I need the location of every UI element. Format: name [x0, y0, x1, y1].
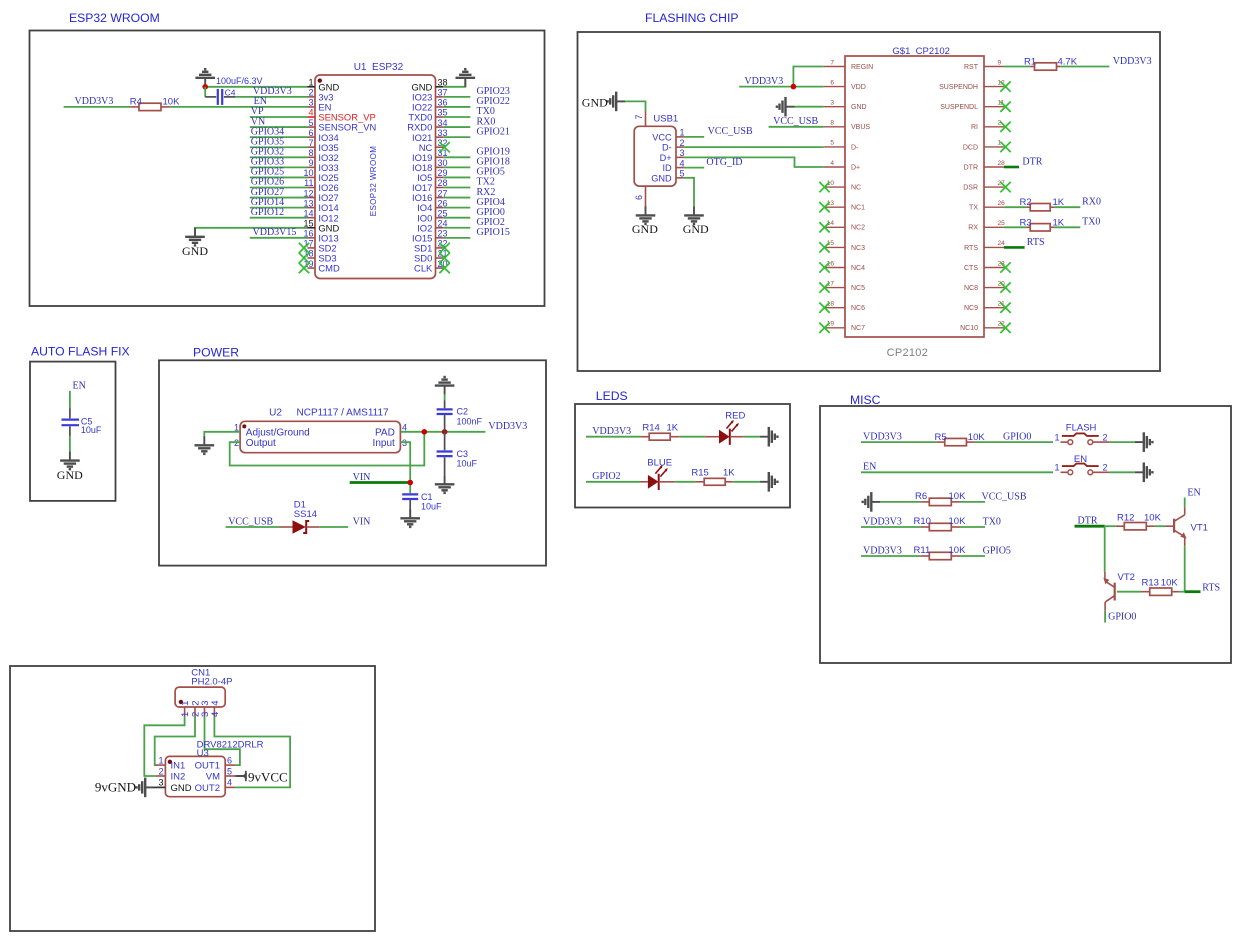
net label VIN at U2: [353, 472, 371, 483]
svg-text:R3: R3: [1020, 217, 1032, 228]
svg-text:VDD3V3: VDD3V3: [863, 545, 902, 556]
pin 21 NC9 of G$1: [964, 301, 1005, 313]
svg-text:1: 1: [180, 712, 191, 717]
svg-text:3: 3: [308, 98, 313, 108]
pin 4 SENSOR_VP of U1: [308, 108, 376, 123]
connector USB1 body: [634, 113, 678, 186]
pin 8 VBUS of G$1: [824, 120, 871, 132]
wire U2 pin 1 to GND: [204, 432, 240, 437]
svg-text:3: 3: [680, 148, 685, 158]
no-connect mark U1 pin 19: [299, 263, 309, 273]
wire RTS label segment: [1185, 590, 1201, 593]
pin 30 IO18 of U1: [412, 158, 448, 173]
svg-text:GPIO15: GPIO15: [477, 227, 510, 238]
svg-text:GPIO0: GPIO0: [1108, 611, 1136, 622]
svg-text:7: 7: [308, 138, 313, 148]
svg-text:R12: R12: [1117, 513, 1134, 524]
pin 4 PAD of U2: [375, 423, 407, 439]
wire VDD3V3 to R5: [861, 441, 936, 443]
pin 5 VM of U3: [206, 766, 236, 782]
svg-text:R6: R6: [915, 491, 927, 502]
wire GPIO26 to U1 pin 11: [250, 187, 308, 189]
wire DTR to R12: [1105, 525, 1116, 527]
ground symbol right of R15: [760, 472, 778, 492]
wire U2 pin 4 to VDD3V3: [400, 431, 485, 433]
pin 11 IO26 of U1: [304, 178, 339, 193]
svg-text:OUT2: OUT2: [195, 783, 220, 794]
ground symbol below C1: [400, 509, 420, 527]
svg-text:DCD: DCD: [963, 144, 978, 151]
frame AUTO FLASH FIX: [30, 362, 116, 501]
svg-text:2: 2: [158, 766, 163, 776]
net label VDD3V3 at R14: [592, 426, 631, 437]
wire 9vGND to U3 GND: [153, 786, 166, 788]
wire D- USB1 to G$1: [684, 146, 824, 148]
wire G$1 GND: [795, 106, 824, 108]
svg-text:U1 ESP32: U1 ESP32: [354, 62, 404, 73]
svg-text:VDD3V3: VDD3V3: [1113, 56, 1152, 67]
no-connect mark G$1 pin 18: [819, 303, 829, 313]
wire VDD3V3 to R14: [586, 436, 640, 438]
net label VDD3V3 at R11: [863, 545, 902, 556]
svg-text:SS14: SS14: [294, 509, 317, 520]
svg-text:SUSPENDL: SUSPENDL: [940, 104, 978, 111]
wire U1 pin 38 to GND: [443, 78, 465, 87]
net label GPIO4 at U1 pin 26: [477, 197, 505, 208]
svg-text:2: 2: [308, 88, 313, 98]
svg-text:VDD: VDD: [851, 84, 866, 91]
no-connect mark G$1 pin 15: [819, 242, 829, 252]
pin 2 IN2 of U3: [155, 766, 185, 782]
svg-text:GND: GND: [851, 104, 867, 111]
pin 16 NC4 of G$1: [824, 260, 865, 272]
pin 9 RST of G$1: [964, 59, 1004, 71]
svg-text:VCC: VCC: [652, 132, 672, 142]
svg-text:EN: EN: [863, 462, 876, 473]
svg-text:VT2: VT2: [1118, 572, 1135, 583]
capacitor C3 10uF: [437, 432, 478, 476]
no-connect mark G$1 pin 13: [819, 202, 829, 212]
svg-text:4: 4: [210, 712, 221, 717]
frame MISC: [820, 406, 1231, 663]
transistor VT1: [1166, 507, 1208, 546]
capacitor C5 10uF: [62, 408, 102, 436]
svg-text:GPIO21: GPIO21: [477, 126, 510, 137]
svg-text:REGIN: REGIN: [851, 64, 873, 71]
ground symbol in AUTO FLASH FIX: [57, 452, 83, 482]
net label GPIO26 at U1 pin 11: [251, 177, 284, 188]
svg-text:10K: 10K: [949, 516, 967, 527]
svg-text:ID: ID: [663, 163, 673, 173]
no-connect mark U1 pin 21: [439, 253, 449, 263]
pin 6 of USB1: [634, 186, 646, 210]
svg-text:EN: EN: [1074, 454, 1087, 465]
pin 36 IO22 of U1: [412, 98, 448, 113]
wire R11 to GPIO5: [960, 555, 985, 557]
pin 25 IO0 of U1: [417, 208, 447, 223]
resistor R14 1K: [640, 422, 679, 440]
net label VCC_USB at R6: [982, 491, 1027, 502]
net label VDD3V15 at U1 pin 16: [253, 227, 297, 238]
ground symbol right of switch EN: [1135, 463, 1153, 483]
wire LED RED to GND: [730, 436, 760, 438]
pin 24 IO2 of U1: [417, 218, 447, 233]
svg-text:10K: 10K: [1144, 513, 1162, 524]
wire R15 to GND: [734, 481, 760, 483]
resistor R6 10K: [915, 491, 966, 506]
pin 18 NC6 of G$1: [824, 301, 865, 313]
net label VDD3V3 at U2: [488, 421, 527, 432]
wire VP to U1 pin 4: [250, 116, 308, 118]
resistor R5 10K: [935, 432, 986, 446]
wire VCC_USB to D1: [226, 526, 280, 528]
svg-text:AUTO FLASH FIX: AUTO FLASH FIX: [31, 345, 130, 359]
svg-text:RST: RST: [964, 64, 979, 71]
net label GPIO12 at U1 pin 14: [251, 207, 284, 218]
pin 4 D+ of G$1: [824, 160, 860, 172]
svg-text:NC4: NC4: [851, 265, 865, 272]
wire VCC_USB to G$1 VBUS: [769, 126, 824, 128]
svg-text:ESP32 WROOM: ESP32 WROOM: [69, 11, 160, 25]
wire GPIO32 to U1 pin 8: [250, 156, 308, 158]
svg-text:2: 2: [1103, 432, 1108, 442]
pin 25 RX of G$1: [968, 220, 1005, 232]
net label GPIO14 at U1 pin 13: [251, 197, 284, 208]
svg-text:10K: 10K: [1161, 577, 1179, 588]
frame motor driver block: [10, 666, 375, 931]
svg-text:EN: EN: [1187, 488, 1200, 499]
svg-text:NC3: NC3: [851, 245, 865, 252]
svg-text:VIN: VIN: [353, 517, 371, 528]
pin 1 VCC of USB1: [652, 128, 684, 143]
pin 27 DSR of G$1: [963, 180, 1005, 192]
pin 34 RXD0 of U1: [407, 118, 447, 133]
pin 22 SD1 of U1: [414, 239, 447, 254]
wire GPIO15 from U1 pin 23: [443, 237, 470, 239]
net label GPIO0 at switch FLASH: [1003, 432, 1031, 443]
svg-text:10uF: 10uF: [81, 425, 102, 435]
frame FLASHING CHIP: [578, 32, 1161, 371]
svg-text:8: 8: [308, 148, 313, 158]
pin 19 NC7 of G$1: [824, 321, 865, 333]
pin 17 NC5 of G$1: [824, 280, 865, 292]
section title MISC: [850, 393, 881, 407]
pin 22 NC10 of G$1: [960, 321, 1005, 333]
svg-text:GND: GND: [683, 222, 709, 236]
svg-text:4: 4: [680, 158, 685, 168]
svg-text:VDD3V3: VDD3V3: [75, 96, 114, 107]
pin 7 REGIN of G$1: [824, 59, 873, 71]
svg-text:G$1 CP2102: G$1 CP2102: [892, 46, 950, 57]
svg-text:1K: 1K: [723, 468, 735, 479]
pin 23 IO15 of U1: [412, 229, 448, 244]
svg-text:2: 2: [1103, 463, 1108, 473]
net label GPIO2 at U1 pin 24: [477, 217, 505, 228]
svg-text:IN1: IN1: [171, 761, 186, 772]
pin 7 IO35 of U1: [308, 138, 339, 153]
svg-text:GND: GND: [182, 244, 208, 258]
wire RX2 from U1 pin 27: [443, 197, 470, 199]
net label VP at U1 pin 4: [251, 106, 264, 117]
resistor R12 10K: [1116, 513, 1162, 530]
net label RX0: [1082, 197, 1101, 208]
svg-text:VDD3V15: VDD3V15: [253, 227, 297, 238]
wire DTR from G$1: [1004, 166, 1019, 169]
svg-text:10uF: 10uF: [421, 502, 442, 512]
wire VT1 emitter to RTS: [1184, 546, 1186, 592]
frame LEDS: [575, 404, 790, 508]
wire GPIO22 from U1 pin 36: [443, 106, 470, 108]
pin 5 D- of G$1: [824, 140, 859, 152]
svg-text:9vGND: 9vGND: [95, 780, 136, 795]
pin 23 CTS of G$1: [964, 260, 1005, 272]
svg-text:D-: D-: [851, 144, 859, 151]
wire RX to R3: [1004, 226, 1026, 228]
svg-text:NC10: NC10: [960, 325, 978, 332]
svg-text:R13: R13: [1142, 577, 1159, 588]
wire VT2 base to R13: [1117, 591, 1141, 593]
wire VCC_USB from USB1 pin 1: [684, 136, 704, 138]
svg-text:VDD3V3: VDD3V3: [488, 421, 527, 432]
net label TX0 at U1 pin 35: [477, 106, 495, 117]
svg-text:NCP1117 / AMS1117: NCP1117 / AMS1117: [297, 407, 390, 418]
wire GPIO34 to U1 pin 6: [250, 136, 308, 138]
ground symbol right of LED RED: [760, 427, 778, 447]
no-connect mark G$1 pin 14: [819, 222, 829, 232]
wire GND to USB1 pin 7: [625, 101, 645, 111]
wire GPIO18 from U1 pin 30: [443, 166, 470, 168]
svg-text:1: 1: [1055, 432, 1060, 442]
svg-text:MISC: MISC: [850, 393, 881, 407]
net label VDD3V3 at U1 pin 2: [253, 86, 292, 97]
svg-text:NC6: NC6: [851, 305, 865, 312]
pin 18 SD3 of U1: [303, 249, 336, 264]
section title LEDS: [596, 389, 628, 403]
no-connect mark G$1 pin 17: [819, 282, 829, 292]
wire VIN label segment: [350, 481, 411, 484]
wire GPIO2 to LED BLUE: [586, 481, 640, 483]
no-connect mark G$1 pin 1: [1000, 142, 1010, 152]
pin 26 TX of G$1: [969, 200, 1005, 212]
pin 3 EN of U1: [308, 98, 332, 113]
net label VDD3V3 at R5: [863, 432, 902, 443]
pin 2 D- of USB1: [662, 138, 685, 153]
pin 35 TXD0 of U1: [408, 108, 447, 123]
net label GPIO27 at U1 pin 12: [251, 187, 284, 198]
svg-text:LEDS: LEDS: [596, 389, 628, 403]
ground symbol at U1 pin 15: [182, 228, 208, 258]
wire GPIO14 to U1 pin 13: [250, 207, 308, 209]
wire GPIO2 from U1 pin 24: [443, 227, 470, 229]
net label GPIO15 at U1 pin 23: [477, 227, 510, 238]
wire D+ USB1 to G$1: [684, 157, 824, 167]
resistor R15 1K: [691, 468, 735, 486]
svg-text:C1: C1: [421, 492, 433, 502]
resistor R13 10K: [1141, 577, 1180, 595]
pin 16 IO13 of U1: [303, 229, 338, 244]
svg-text:OUT1: OUT1: [195, 761, 220, 772]
pin 3 GND of G$1: [824, 100, 867, 112]
capacitor C1 10uF: [402, 492, 442, 519]
svg-text:VBUS: VBUS: [851, 124, 870, 131]
section title ESP32 WROOM: [69, 11, 160, 25]
section title AUTO FLASH FIX: [31, 345, 130, 359]
svg-text:C4: C4: [225, 87, 236, 97]
svg-text:CMD: CMD: [318, 263, 340, 274]
svg-text:IN2: IN2: [171, 772, 186, 783]
no-connect mark G$1 pin 12: [1000, 81, 1010, 91]
junction node PAD/Output: [422, 429, 428, 435]
pin 19 CMD of U1: [303, 259, 339, 274]
net label GPIO21 at U1 pin 33: [477, 126, 510, 137]
connector CN1 PH2.0-4P body: [175, 667, 232, 707]
net label GPIO5 at R11: [983, 545, 1011, 556]
wire REGIN to VDD net: [793, 67, 823, 87]
svg-text:10K: 10K: [949, 545, 967, 556]
svg-text:RTS: RTS: [1202, 582, 1220, 593]
net label GPIO5 at U1 pin 29: [477, 167, 505, 178]
net label VCC_USB at G$1 VBUS: [773, 116, 818, 127]
wire R13 to RTS junction: [1180, 591, 1185, 593]
wire GND to R6: [880, 501, 920, 503]
svg-text:GPIO0: GPIO0: [1003, 432, 1031, 443]
svg-text:USB1: USB1: [653, 113, 678, 124]
section title FLASHING CHIP: [645, 11, 738, 25]
capacitor C2 100nF: [437, 395, 483, 432]
svg-text:9: 9: [998, 59, 1002, 66]
svg-text:GND: GND: [582, 95, 608, 109]
pin 3 Input of U2: [373, 438, 407, 449]
wire DTR to VT2 emitter: [1104, 526, 1106, 572]
net label OTG_ID at USB1: [706, 157, 742, 168]
no-connect mark U1 pin 22: [439, 243, 449, 253]
wire R1 to VDD3V3: [1061, 66, 1110, 68]
wire EN to C5: [69, 391, 71, 408]
resistor R2 1K: [1020, 197, 1065, 211]
ic G$1 CP2102 body: [845, 46, 984, 359]
pin 1 GND of U1: [308, 78, 340, 93]
wire VN to U1 pin 5: [250, 126, 308, 128]
pin 10 IO25 of U1: [303, 168, 338, 183]
led BLUE: [640, 457, 672, 490]
svg-text:4: 4: [308, 108, 313, 118]
wire R6 to VCC_USB: [960, 501, 985, 503]
svg-text:D+: D+: [660, 153, 672, 163]
svg-text:9: 9: [308, 158, 313, 168]
svg-text:6: 6: [634, 195, 644, 200]
wire TX2 from U1 pin 28: [443, 187, 470, 189]
pin 6 IO34 of U1: [308, 128, 339, 143]
svg-text:GND: GND: [632, 222, 658, 236]
no-connect mark G$1 pin 16: [819, 262, 829, 272]
pin 9 IO33 of U1: [308, 158, 339, 173]
net label VIN at D1: [353, 517, 371, 528]
svg-text:PH2.0-4P: PH2.0-4P: [191, 676, 232, 687]
net label RX2 at U1 pin 27: [477, 187, 496, 198]
svg-text:CTS: CTS: [964, 265, 978, 272]
svg-text:RTS: RTS: [1027, 237, 1045, 248]
svg-text:DTR: DTR: [1022, 156, 1042, 167]
svg-text:VT1: VT1: [1191, 523, 1208, 534]
wire GPIO25 to U1 pin 10: [250, 176, 308, 178]
wire USB1 pin 5 to GND: [684, 178, 694, 207]
pin 17 SD2 of U1: [303, 239, 336, 254]
svg-text:VCC_USB: VCC_USB: [708, 126, 753, 137]
svg-text:NC1: NC1: [851, 205, 865, 212]
net label RTS at G$1: [1027, 237, 1045, 248]
ground symbol 9vGND: [95, 778, 154, 798]
svg-text:Output: Output: [246, 438, 276, 449]
pin 20 NC8 of G$1: [964, 280, 1005, 292]
switch EN: [1055, 454, 1110, 475]
pin 2 RI of G$1: [971, 120, 1004, 132]
svg-text:VCC_USB: VCC_USB: [773, 116, 818, 127]
wire R4 to U1 pin 3 EN: [170, 106, 308, 108]
transistor VT2: [1103, 572, 1135, 611]
svg-text:NC7: NC7: [851, 325, 865, 332]
ground symbol at U2 pin 1: [195, 436, 215, 454]
svg-text:POWER: POWER: [193, 346, 239, 360]
switch FLASH: [1055, 422, 1110, 444]
pin 26 IO4 of U1: [417, 198, 447, 213]
net label EN at U1 pin 3: [254, 96, 267, 107]
svg-text:VM: VM: [206, 772, 220, 783]
wire D1 to VIN: [320, 526, 348, 528]
no-connect mark G$1 pin 27: [1000, 182, 1010, 192]
svg-text:GND: GND: [57, 468, 83, 482]
ic U2 NCP1117/AMS1117 body: [240, 407, 400, 452]
supply 9vVCC at U3 VM: [235, 769, 287, 784]
no-connect mark G$1 pin 20: [1000, 282, 1010, 292]
capacitor C4 100uF/6.3V: [205, 76, 262, 105]
wire TX0 from U1 pin 35: [443, 116, 470, 118]
wire R2 to RX0: [1054, 206, 1080, 208]
svg-text:1: 1: [308, 78, 313, 88]
junction node VIN/C1: [407, 480, 413, 486]
wire DTR label segment: [1075, 525, 1105, 528]
ground symbol left of USB1: [582, 92, 625, 112]
pin 14 IO12 of U1: [303, 208, 338, 223]
svg-text:D+: D+: [851, 164, 860, 171]
pin 12 SUSPENDH of G$1: [939, 79, 1005, 91]
net label VDD3V3 at R4: [75, 96, 114, 107]
pin 24 RTS of G$1: [964, 240, 1005, 252]
wire VDD3V15 to U1 pin 16: [250, 237, 308, 239]
svg-text:Adjust/Ground: Adjust/Ground: [246, 427, 310, 438]
no-connect mark G$1 pin 23: [1000, 262, 1010, 272]
svg-text:BLUE: BLUE: [647, 457, 672, 468]
junction node VDD3V3/C2/C3: [442, 429, 448, 435]
junction node GND/C4: [202, 84, 208, 90]
svg-text:U3: U3: [197, 748, 209, 759]
net label TX0 at R10: [983, 516, 1001, 527]
svg-text:VDD3V3: VDD3V3: [592, 426, 631, 437]
svg-text:6: 6: [830, 79, 834, 86]
pin 10 NC of G$1: [824, 180, 861, 192]
wire R10 to TX0: [960, 526, 985, 528]
net label GPIO18 at U1 pin 30: [477, 157, 510, 168]
svg-text:3: 3: [158, 778, 163, 788]
svg-text:R14: R14: [642, 422, 659, 433]
wire GPIO19 from U1 pin 31: [443, 156, 470, 158]
svg-text:FLASHING CHIP: FLASHING CHIP: [645, 11, 738, 25]
pin 6 OUT1 of U3: [195, 755, 236, 771]
svg-text:GPIO12: GPIO12: [251, 207, 284, 218]
svg-text:GND: GND: [171, 783, 192, 794]
pin 3 GND of U3: [158, 778, 191, 794]
svg-text:R2: R2: [1020, 197, 1032, 208]
svg-text:RX0: RX0: [1082, 197, 1101, 208]
